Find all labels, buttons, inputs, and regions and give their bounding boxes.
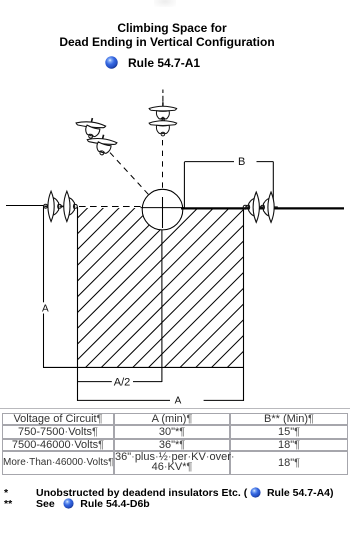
square bottom edge + left extension — [43, 366, 244, 368]
faint cropped mark at very top — [154, 0, 176, 7]
pole (circle) — [142, 189, 183, 230]
left deadend string: eye ring — [44, 204, 48, 208]
title line 3: blue sphere bullet + rule number — [105, 56, 118, 69]
footnote 1 — [4, 487, 8, 499]
crosshair — [141, 207, 185, 209]
dashed diagonal from tilted string to pole — [110, 153, 149, 195]
title line 1 — [0, 21, 347, 35]
center line from circle to A/2 — [161, 228, 163, 382]
footnote 2 — [4, 498, 12, 510]
dimension A vertical line — [43, 205, 45, 302]
heavy conductor line to the right — [181, 207, 344, 209]
faint separator line above table — [0, 408, 350, 410]
tilted insulator stack: disc 2 — [87, 135, 117, 157]
vertical insulator stack: disc 1 — [149, 102, 177, 121]
svg-text:B: B — [238, 156, 245, 168]
right deadend string: discs — [246, 192, 263, 222]
svg-text:A: A — [42, 304, 49, 315]
dashed vertical above pole — [162, 90, 164, 94]
square right edge — [243, 208, 245, 401]
data table — [2, 413, 348, 475]
tilted insulator stack: disc 1 — [76, 118, 106, 140]
square left edge — [77, 207, 79, 401]
dimension A bottom line — [77, 399, 170, 401]
svg-text:A/2: A/2 — [114, 377, 131, 389]
dimension A/2 line — [77, 381, 112, 383]
vertical insulator stack: disc 2 — [149, 117, 177, 136]
right deadend string: eye ring — [243, 205, 247, 209]
hatched climbing-space square — [77, 52, 244, 534]
dimension B bracket — [183, 162, 185, 208]
svg-text:A: A — [175, 396, 182, 407]
dashed horizontal from left string to pole — [79, 206, 142, 208]
left deadend string: discs — [44, 191, 61, 221]
title line 2 — [0, 35, 342, 49]
left conductor wire — [6, 205, 44, 207]
